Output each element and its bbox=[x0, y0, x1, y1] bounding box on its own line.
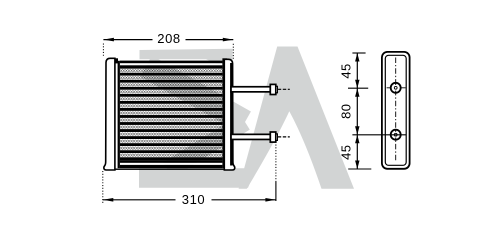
svg-text:45: 45 bbox=[339, 145, 354, 160]
svg-text:45: 45 bbox=[339, 63, 354, 78]
svg-text:80: 80 bbox=[339, 104, 354, 119]
svg-text:208: 208 bbox=[157, 31, 181, 46]
svg-text:310: 310 bbox=[182, 192, 206, 207]
